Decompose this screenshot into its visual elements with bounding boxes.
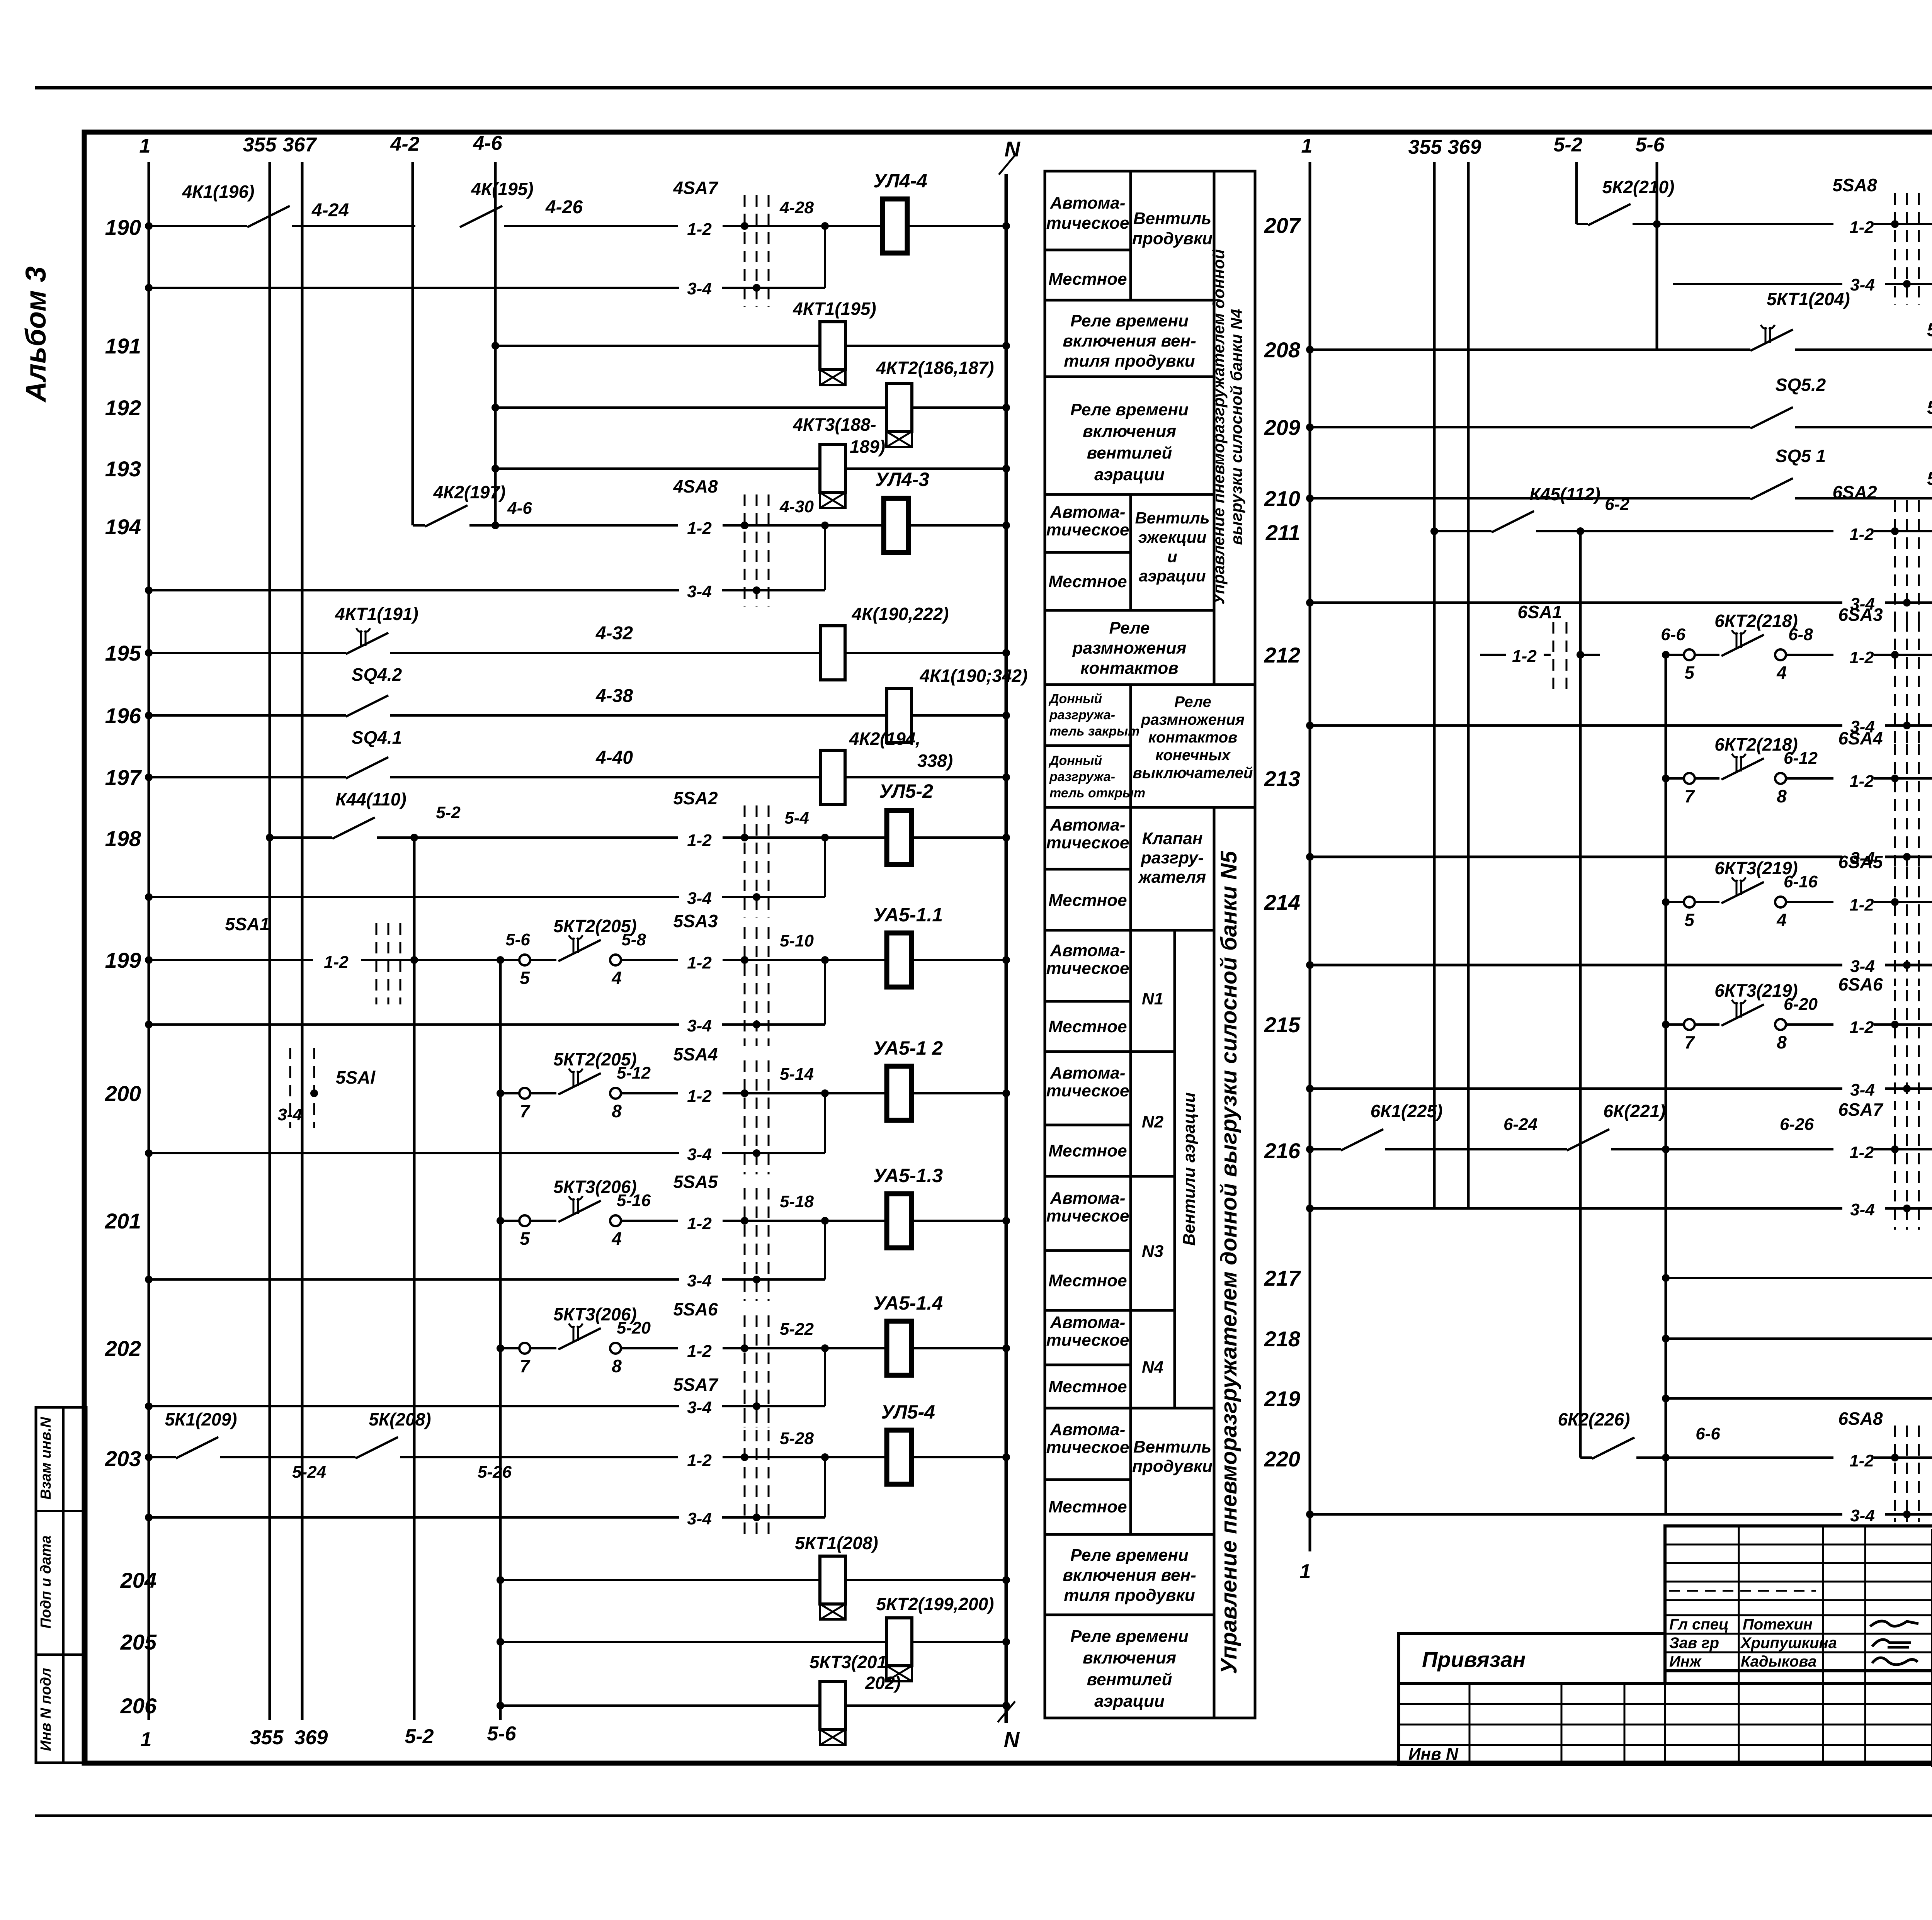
svg-text:Местное: Местное — [1048, 270, 1127, 289]
staff grid lines — [1665, 1544, 1932, 1546]
lower grid outline — [1399, 1684, 1932, 1765]
table4 cell ventil ejekcii — [1131, 494, 1214, 610]
svg-text:3-4: 3-4 — [1850, 275, 1875, 294]
svg-text:3-4: 3-4 — [687, 279, 712, 298]
button 212 b — [1775, 649, 1786, 660]
contact 5КТ1(204) — [1750, 330, 1793, 351]
svg-text:УА5-1.1: УА5-1.1 — [873, 904, 943, 926]
svg-text:1-2: 1-2 — [687, 953, 712, 972]
table5 cell avt N1 — [1045, 930, 1131, 1001]
contact K44(110) — [332, 817, 375, 839]
coil УА5-1 2 — [887, 1066, 912, 1120]
svg-text:разгружа-: разгружа- — [1049, 770, 1115, 784]
svg-text:N3: N3 — [1142, 1242, 1163, 1261]
svg-text:включения: включения — [1083, 422, 1176, 441]
wire row 211 c — [1874, 530, 1932, 532]
node 5-10 — [821, 956, 829, 964]
wire chain 201 c — [723, 1220, 792, 1222]
contact 4КТ1(191) — [346, 633, 388, 654]
wire row 190 3-4 — [149, 287, 679, 289]
wire row 190 d — [723, 225, 792, 227]
svg-text:N1: N1 — [1142, 989, 1163, 1008]
svg-text:1-2: 1-2 — [687, 1214, 712, 1233]
svg-text:6К(221): 6К(221) — [1603, 1101, 1665, 1121]
svg-text:5-2: 5-2 — [1553, 134, 1582, 156]
wire row 196 c — [912, 714, 1006, 717]
svg-text:Автома-: Автома- — [1050, 503, 1126, 522]
svg-text:206: 206 — [120, 1694, 157, 1718]
svg-text:Реле: Реле — [1174, 693, 1211, 710]
right bus 5-2 — [1575, 162, 1578, 224]
svg-text:Местное: Местное — [1048, 1017, 1127, 1036]
time contact 6КТ3(219) 215 — [1721, 1004, 1764, 1026]
svg-text:197: 197 — [105, 765, 142, 790]
svg-text:Хрипушкина: Хрипушкина — [1740, 1635, 1837, 1652]
chain corner 212 — [1666, 654, 1684, 656]
coil UL4-3 — [884, 498, 908, 552]
wire row 198 e — [912, 836, 1006, 839]
wire row 200 3-4 — [149, 1152, 679, 1154]
wire chain 199 c — [723, 959, 792, 961]
table5 cell mest N4 — [1045, 1365, 1131, 1408]
svg-text:контактов: контактов — [1080, 659, 1179, 678]
svg-text:201: 201 — [105, 1209, 141, 1233]
wire row 192 b — [912, 406, 1006, 409]
wire row 194 b — [723, 524, 792, 527]
wire row 198 3-4 — [149, 896, 679, 898]
wire row 198 b — [377, 836, 678, 839]
node 5-28 — [821, 1453, 829, 1461]
svg-text:5К1(209): 5К1(209) — [165, 1409, 237, 1429]
svg-text:1-2: 1-2 — [687, 1342, 712, 1361]
left bus 355 — [269, 162, 271, 1720]
wire row 220 a — [1636, 1456, 1833, 1459]
wire rchain 213 c — [1874, 777, 1932, 780]
svg-text:тическое: тическое — [1046, 1331, 1129, 1350]
wire row 205 — [500, 1641, 886, 1643]
outer bottom border line — [35, 1815, 1932, 1817]
left bus 5-6 — [499, 960, 502, 1720]
jog row 200 — [824, 1093, 826, 1153]
staff grid outline — [1665, 1526, 1932, 1671]
svg-text:5КТ3(201: 5КТ3(201 — [810, 1652, 887, 1672]
svg-text:4-2: 4-2 — [390, 133, 419, 155]
svg-text:4-38: 4-38 — [595, 686, 633, 706]
table5 cell avt N3 — [1045, 1176, 1131, 1251]
wire row 198 a — [270, 836, 332, 839]
svg-text:5-26: 5-26 — [478, 1463, 512, 1482]
svg-text:5SА8: 5SА8 — [1832, 175, 1877, 195]
svg-text:5: 5 — [520, 1228, 530, 1249]
wire row 203 3-4 — [149, 1516, 679, 1519]
wire row 195 a — [149, 652, 346, 654]
corner bus 4-2 to contact — [412, 498, 414, 525]
svg-text:разгру-: разгру- — [1141, 848, 1204, 867]
svg-text:УЛ5-2: УЛ5-2 — [879, 780, 933, 802]
time relay coil 5КТ2(199,200) — [886, 1618, 912, 1666]
privyazan cell — [1399, 1634, 1665, 1684]
wire row 196 b — [390, 714, 886, 717]
svg-text:4К1(196): 4К1(196) — [182, 182, 255, 202]
svg-text:5-4: 5-4 — [784, 809, 809, 827]
button 200 b — [610, 1088, 621, 1099]
wire row 220 3-4 — [1310, 1513, 1842, 1516]
svg-text:Местное: Местное — [1048, 1377, 1127, 1396]
svg-text:Автома-: Автома- — [1050, 1420, 1126, 1439]
svg-text:4: 4 — [611, 1228, 622, 1249]
switch 5SА5 dashes — [744, 1188, 746, 1301]
svg-text:5-28: 5-28 — [780, 1429, 814, 1448]
svg-text:5-22: 5-22 — [780, 1320, 814, 1339]
svg-text:Местное: Местное — [1048, 1142, 1127, 1160]
svg-text:Вентиль: Вентиль — [1133, 1437, 1211, 1456]
svg-text:208: 208 — [1264, 338, 1301, 362]
svg-text:6-8: 6-8 — [1788, 625, 1813, 644]
svg-text:4КТ1(195): 4КТ1(195) — [793, 299, 876, 319]
svg-text:6-24: 6-24 — [1503, 1115, 1537, 1134]
wire row 203 c — [400, 1456, 678, 1458]
svg-text:194: 194 — [105, 515, 141, 539]
contact SQ4.2 — [346, 695, 388, 717]
contact 6K2(226) — [1592, 1437, 1634, 1459]
switch 6SA8b dashes — [1894, 1426, 1896, 1522]
time contact 6КТ2(218) 212 — [1721, 635, 1764, 656]
staff sign 3 — [1872, 1658, 1918, 1665]
svg-text:5: 5 — [1684, 910, 1695, 930]
wire row 194 a — [469, 524, 678, 527]
switch 5SA7 dashes — [744, 1393, 746, 1538]
svg-text:1-2: 1-2 — [1512, 647, 1537, 666]
table4 cell rele razmn — [1045, 610, 1214, 685]
svg-text:1-2: 1-2 — [1849, 1018, 1874, 1037]
svg-text:продувки: продувки — [1132, 229, 1213, 248]
button 214 a — [1684, 897, 1695, 907]
node 4-30 — [821, 522, 829, 529]
svg-text:контактов: контактов — [1148, 729, 1238, 746]
node 4-28 — [821, 222, 829, 230]
svg-text:205: 205 — [120, 1630, 157, 1654]
svg-text:5КТ1(208): 5КТ1(208) — [795, 1533, 878, 1553]
time relay coil 5КТ3(201 — [820, 1682, 845, 1730]
svg-text:Вентиль: Вентиль — [1133, 209, 1211, 228]
svg-text:эжекции: эжекции — [1138, 528, 1207, 546]
wire row 190 b — [292, 225, 415, 227]
wire row 216 a — [1310, 1148, 1341, 1150]
contact 5K2(210) — [1577, 223, 1588, 225]
svg-text:и: и — [1167, 547, 1177, 566]
left stamp divider 2 — [36, 1653, 86, 1656]
svg-text:УЛ4-4: УЛ4-4 — [873, 170, 927, 192]
svg-text:367: 367 — [283, 134, 317, 156]
jog row203 — [824, 1457, 826, 1517]
svg-text:1: 1 — [1301, 135, 1313, 157]
time contact 5КТ3(206) — [558, 1201, 601, 1222]
svg-text:5SА5: 5SА5 — [673, 1172, 718, 1192]
svg-text:3-4: 3-4 — [1850, 1200, 1875, 1219]
switch 6SA1 dashes — [1553, 622, 1554, 695]
svg-text:конечных: конечных — [1155, 747, 1231, 764]
svg-text:1-2: 1-2 — [687, 1451, 712, 1470]
svg-text:УА5-1 2: УА5-1 2 — [873, 1037, 943, 1059]
time contact 6КТ3(219) 214 — [1721, 882, 1764, 903]
svg-text:216: 216 — [1264, 1138, 1301, 1163]
svg-text:Местное: Местное — [1048, 1271, 1127, 1290]
svg-text:3-4: 3-4 — [687, 1509, 712, 1528]
corner 6-2 to contact — [1579, 1429, 1582, 1458]
svg-text:аэрации: аэрации — [1139, 567, 1206, 585]
jog row 202 — [824, 1348, 826, 1406]
svg-text:3-4: 3-4 — [687, 1145, 712, 1164]
coil 4К2(194, — [820, 750, 845, 804]
time relay coil 5КТ1(208) — [820, 1556, 845, 1604]
svg-text:4-6: 4-6 — [507, 499, 532, 518]
svg-text:369: 369 — [1448, 136, 1481, 158]
wire row 194 c — [792, 524, 884, 527]
svg-text:жателя: жателя — [1138, 868, 1206, 887]
svg-text:Реле времени: Реле времени — [1070, 311, 1189, 330]
svg-text:6SА2: 6SА2 — [1832, 482, 1877, 502]
lower grid lines — [1399, 1703, 1932, 1705]
wire row 193 b — [845, 467, 1006, 470]
wire chain 199 e — [912, 959, 1006, 961]
svg-text:Инв N: Инв N — [1408, 1745, 1459, 1764]
wire row 215 3-4 — [1310, 1087, 1842, 1090]
svg-text:214: 214 — [1264, 890, 1300, 914]
svg-text:3-4: 3-4 — [687, 889, 712, 908]
node 5-14 — [821, 1089, 829, 1097]
svg-text:Кадыкова: Кадыкова — [1741, 1653, 1816, 1670]
wire chain 201 d — [792, 1220, 887, 1222]
wire row 203 d — [723, 1456, 792, 1458]
wire row 199 mid — [361, 959, 500, 961]
switch 5SА6 dashes — [744, 1315, 746, 1427]
table5 cell num N1 — [1131, 930, 1175, 1052]
wire row 216 c — [1611, 1148, 1833, 1150]
chain corner 202 — [500, 1347, 519, 1349]
svg-text:аэрации: аэрации — [1094, 465, 1165, 484]
wire row 195 b — [390, 652, 820, 654]
wire row 203 a — [149, 1456, 176, 1458]
svg-text:5-16: 5-16 — [617, 1191, 651, 1210]
switch 5SA1 dashes — [376, 923, 378, 1004]
time relay coil 4КТ2 — [886, 384, 912, 432]
wire row 194 3-4 — [149, 589, 679, 591]
switch 6SА3 dashes — [1894, 620, 1896, 747]
right bus 1 — [1309, 162, 1311, 1551]
svg-text:Реле времени: Реле времени — [1070, 1627, 1189, 1646]
svg-text:7: 7 — [520, 1101, 531, 1121]
svg-text:1-2: 1-2 — [687, 1087, 712, 1106]
svg-text:3-4: 3-4 — [1850, 957, 1875, 976]
svg-text:1-2: 1-2 — [324, 953, 349, 972]
svg-text:190: 190 — [105, 215, 141, 240]
svg-text:5-18: 5-18 — [780, 1192, 814, 1211]
svg-text:тическое: тическое — [1046, 1438, 1129, 1457]
svg-text:5-38: 5-38 — [1927, 398, 1932, 418]
right bus 369 — [1467, 162, 1470, 1208]
svg-text:N: N — [1004, 1727, 1020, 1752]
svg-text:1-2: 1-2 — [1849, 1143, 1874, 1162]
table5 cell num N2 — [1131, 1052, 1175, 1176]
svg-text:6-6: 6-6 — [1661, 625, 1685, 644]
svg-text:193: 193 — [105, 457, 141, 481]
svg-text:196: 196 — [105, 703, 141, 728]
svg-text:Альбом 3: Альбом 3 — [20, 267, 52, 403]
wire rchain 212 c — [1874, 654, 1932, 656]
svg-text:Взам инв.N: Взам инв.N — [38, 1417, 54, 1500]
wire row 191 — [495, 345, 820, 347]
node 5-18 — [821, 1217, 829, 1225]
table5 cell num N4 — [1131, 1310, 1175, 1408]
table5 rotated col — [1214, 807, 1255, 1718]
wire chain 200 e — [912, 1092, 1006, 1094]
time contact 5КТ2(205) — [558, 940, 601, 961]
jog row 199 — [824, 960, 826, 1025]
left stamp strip box — [36, 1407, 86, 1763]
table45 cell donny otkryt — [1045, 746, 1131, 807]
svg-text:4КТ2(186,187): 4КТ2(186,187) — [876, 358, 994, 378]
wire row 208 b — [1795, 348, 1932, 351]
svg-text:1-2: 1-2 — [1849, 1451, 1874, 1470]
contact 4K2(197) — [425, 505, 468, 527]
svg-text:6SА4: 6SА4 — [1838, 728, 1883, 748]
svg-text:выключателей: выключателей — [1133, 765, 1253, 782]
svg-text:5-10: 5-10 — [780, 931, 814, 950]
wire row 203 f — [912, 1456, 1006, 1458]
svg-text:Вентиль: Вентиль — [1135, 509, 1209, 527]
staff grid column continuation — [1738, 1671, 1740, 1765]
svg-text:8: 8 — [1777, 786, 1787, 806]
svg-text:4-28: 4-28 — [779, 198, 814, 217]
svg-text:тиля продувки: тиля продувки — [1064, 1586, 1195, 1605]
table5 cell avt N2 — [1045, 1052, 1131, 1125]
wire row 204 b — [845, 1579, 1006, 1581]
svg-text:1-2: 1-2 — [687, 831, 712, 850]
wire row 205 b — [912, 1641, 1006, 1643]
staff sign 2 — [1872, 1640, 1911, 1647]
contact SQ4.1 — [346, 757, 388, 778]
svg-text:5SА4: 5SА4 — [673, 1044, 718, 1064]
wire row 194 d — [908, 524, 1006, 527]
coil УА5-1.4 — [887, 1321, 912, 1375]
svg-text:202: 202 — [105, 1336, 141, 1361]
svg-text:202): 202) — [865, 1673, 901, 1693]
svg-text:5SА2: 5SА2 — [673, 788, 718, 808]
svg-text:4К(190,222): 4К(190,222) — [852, 604, 949, 624]
contact 5K(208) — [355, 1437, 398, 1458]
svg-text:Гл спец: Гл спец — [1669, 1616, 1729, 1633]
svg-text:вентилей: вентилей — [1087, 443, 1172, 462]
svg-text:5-32: 5-32 — [1927, 320, 1932, 340]
switch 5SА3 dashes — [744, 927, 746, 1046]
svg-text:УА5-1.3: УА5-1.3 — [873, 1165, 943, 1186]
svg-text:215: 215 — [1264, 1013, 1301, 1037]
wire row 211 3-4 — [1310, 601, 1842, 604]
left bus 1 — [148, 162, 150, 1720]
wire rchain 212 a — [1695, 654, 1719, 656]
jog row190 — [824, 226, 826, 288]
right bus 6-2 — [1579, 531, 1582, 1458]
right bus 5-6 — [1656, 162, 1658, 350]
table5 cell mest produvki — [1045, 1480, 1131, 1534]
jog row198 — [824, 838, 826, 897]
wire row 209 b — [1795, 426, 1932, 428]
node 5-22 — [821, 1344, 829, 1352]
table5 cell mest N2 — [1045, 1125, 1131, 1176]
svg-text:размножения: размножения — [1072, 639, 1187, 658]
wire rchain 213 b — [1786, 777, 1833, 780]
svg-text:Вентили аэрации: Вентили аэрации — [1180, 1092, 1199, 1245]
svg-text:1: 1 — [139, 135, 151, 157]
svg-text:198: 198 — [105, 826, 141, 851]
table4 cell rele produvki — [1045, 300, 1214, 377]
wire row 190 a — [149, 225, 247, 227]
svg-text:Донный: Донный — [1048, 692, 1102, 706]
wire row 211 a — [1434, 530, 1492, 532]
svg-text:3-4: 3-4 — [687, 1271, 712, 1290]
button 199 b — [610, 955, 621, 965]
svg-text:Реле времени: Реле времени — [1070, 1546, 1189, 1565]
wire chain 201 a — [530, 1220, 556, 1222]
wire row 197 c — [845, 776, 1006, 778]
wire row 218 — [1666, 1337, 1932, 1340]
svg-text:212: 212 — [1264, 643, 1300, 667]
wire row 195 c — [845, 652, 1006, 654]
svg-text:тическое: тическое — [1046, 214, 1129, 233]
wire row 191 b — [845, 345, 1006, 347]
wire rchain 215 b — [1786, 1023, 1833, 1026]
wire row 209 a — [1310, 426, 1750, 428]
svg-text:369: 369 — [294, 1726, 328, 1749]
wire row 210 a — [1310, 497, 1750, 500]
wire row 197 a — [149, 776, 346, 778]
svg-text:5-6: 5-6 — [487, 1723, 516, 1745]
switch 4SA7 dashes — [744, 195, 746, 307]
svg-text:тическое: тическое — [1046, 1206, 1129, 1225]
svg-text:8: 8 — [1777, 1032, 1787, 1052]
svg-text:209: 209 — [1264, 415, 1300, 440]
wire row 208 a — [1310, 348, 1750, 351]
wire row 201 3-4 — [149, 1278, 679, 1281]
svg-text:4К(195): 4К(195) — [471, 179, 533, 199]
svg-text:207: 207 — [1264, 213, 1301, 238]
svg-text:Автома-: Автома- — [1050, 816, 1126, 834]
svg-text:продувки: продувки — [1132, 1457, 1213, 1476]
svg-text:Управление пневморазгружателем: Управление пневморазгружателем донной вы… — [1216, 851, 1242, 1674]
wire row 198 d — [792, 836, 887, 839]
svg-text:4-32: 4-32 — [595, 623, 633, 644]
coil 4К1(190;342) — [887, 688, 912, 743]
svg-text:355: 355 — [250, 1726, 284, 1749]
table5 cell mest N1 — [1045, 1001, 1131, 1052]
svg-text:К45(112): К45(112) — [1529, 484, 1600, 504]
wire row 202 3-4 — [149, 1405, 679, 1407]
wire row 212 from 6SA1 — [1480, 654, 1506, 656]
wire row 220 b — [1874, 1456, 1932, 1459]
svg-text:8: 8 — [612, 1101, 622, 1121]
button 202 a — [519, 1343, 530, 1354]
chain corner 201 — [500, 1220, 519, 1222]
svg-text:Автома-: Автома- — [1050, 1313, 1126, 1332]
svg-text:SQ4.1: SQ4.1 — [352, 727, 402, 748]
wire row 216 d — [1874, 1148, 1932, 1150]
table4 cell ventil produvki — [1131, 171, 1214, 300]
switch 5SА4 dashes — [744, 1060, 746, 1174]
svg-text:включения вен-: включения вен- — [1063, 1566, 1196, 1585]
svg-text:размножения: размножения — [1141, 711, 1245, 728]
wire rchain 212 b — [1786, 654, 1833, 656]
contact 5K1(209) — [176, 1437, 218, 1458]
